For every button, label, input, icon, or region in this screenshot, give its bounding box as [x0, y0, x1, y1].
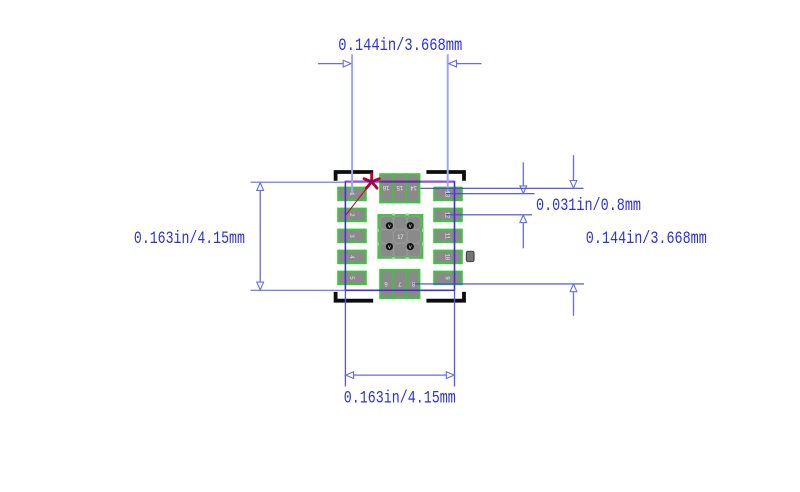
pad 2	[338, 209, 366, 222]
svg-text:17: 17	[397, 234, 404, 241]
svg-text:0.163in/4.15mm: 0.163in/4.15mm	[344, 390, 456, 409]
courtyard corner top-left	[334, 170, 374, 181]
package outline bottom edge	[345, 289, 454, 291]
svg-text:0.144in/3.668mm: 0.144in/3.668mm	[338, 37, 462, 56]
courtyard corner bottom-right	[426, 292, 466, 303]
pad 12	[434, 209, 462, 222]
top dimension extension line left	[351, 54, 353, 194]
svg-text:0.031in/0.8mm: 0.031in/0.8mm	[536, 197, 641, 216]
via V1	[386, 222, 393, 230]
pad 4	[338, 251, 366, 264]
right dimension reference line upper	[421, 187, 584, 189]
pad 16	[380, 174, 419, 202]
bottom dimension extension line left	[344, 182, 346, 387]
svg-text:v: v	[409, 224, 412, 230]
via V4	[407, 243, 414, 251]
left dimension arrow line	[257, 183, 264, 290]
pad 3	[338, 230, 366, 243]
bottom dimension extension line right	[454, 182, 456, 387]
via V3	[386, 243, 393, 251]
pad 7 divider	[392, 269, 394, 299]
package outline left edge	[344, 181, 346, 291]
svg-text:12: 12	[444, 212, 451, 219]
svg-text:v: v	[388, 224, 391, 230]
pad 6	[380, 270, 419, 298]
pin-1 marker	[364, 174, 379, 189]
pad 15 divider	[392, 173, 394, 203]
svg-text:11: 11	[444, 233, 451, 240]
top dimension left arrow	[318, 60, 351, 67]
top dimension extension line right	[447, 54, 449, 193]
svg-text:0.163in/4.15mm: 0.163in/4.15mm	[134, 230, 245, 249]
svg-text:14: 14	[410, 184, 417, 191]
svg-text:15: 15	[396, 184, 403, 191]
pin-1 leader line	[346, 182, 372, 215]
top dimension right arrow	[449, 60, 482, 67]
package outline top edge	[345, 181, 454, 183]
pad 9	[434, 272, 462, 285]
right dimension top arrow	[570, 155, 577, 188]
right dimension reference line lower	[412, 283, 584, 285]
package outline right edge	[454, 181, 456, 291]
thermal pad 17	[377, 213, 424, 259]
pad 11	[434, 230, 462, 243]
svg-text:16: 16	[382, 184, 389, 191]
pitch dimension top arrow	[520, 162, 527, 193]
courtyard corner top-right	[426, 170, 466, 181]
svg-text:v: v	[388, 245, 391, 251]
pad 13	[434, 188, 462, 201]
pad 14 divider	[406, 173, 408, 203]
left dimension extension line top	[251, 181, 346, 183]
polarity mark	[466, 251, 474, 261]
svg-text:0.144in/3.668mm: 0.144in/3.668mm	[586, 230, 707, 249]
pad 10	[434, 251, 462, 264]
pad 8 divider	[406, 269, 408, 299]
via V2	[407, 222, 414, 230]
svg-text:13: 13	[444, 191, 451, 198]
pad 5	[338, 272, 366, 285]
svg-text:v: v	[409, 245, 412, 251]
left dimension extension line bottom	[251, 289, 346, 291]
courtyard corner bottom-left	[334, 292, 374, 303]
pitch dimension bottom arrow	[520, 215, 527, 248]
pad 1	[338, 188, 366, 201]
pitch dimension reference line upper	[446, 193, 535, 195]
svg-text:10: 10	[444, 254, 451, 261]
right dimension bottom arrow	[570, 284, 577, 316]
bottom dimension arrow line	[346, 372, 454, 379]
pitch dimension reference line lower	[446, 214, 532, 216]
